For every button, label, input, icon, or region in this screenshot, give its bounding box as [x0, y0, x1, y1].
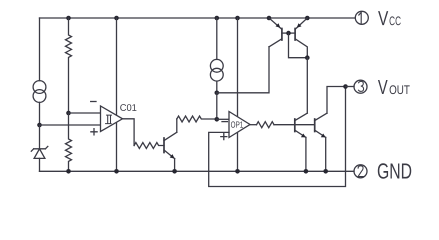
- wire: GND bottom rail: [40, 170, 355, 172]
- svg-text:V: V: [378, 77, 388, 99]
- wire: I2 node to PNP mirror collector: [217, 47, 269, 93]
- junction on Vcc rail for OP1 supply: [235, 16, 240, 21]
- svg-text:OUT: OUT: [389, 83, 410, 97]
- resistor R4: [134, 143, 164, 149]
- label - (C01 inverting): [91, 101, 96, 103]
- current source I2: [210, 59, 223, 72]
- junction on Vcc rail: PNP Q2 emitter: [267, 16, 272, 21]
- svg-text:C01: C01: [120, 103, 137, 114]
- junction Q5 emitter on GND rail: [323, 169, 328, 174]
- wire: divider tap to C01 - input: [69, 112, 101, 114]
- resistor R2: [66, 113, 72, 171]
- resistor R3: [177, 116, 217, 122]
- label + (OP1 non-inverting): [221, 134, 227, 140]
- junction Q1 emitter on GND rail: [172, 169, 177, 174]
- svg-text:CC: CC: [389, 14, 401, 28]
- op-amp OP1: [229, 112, 250, 138]
- comparator C01: [101, 106, 123, 132]
- junction OP1 supply to GND rail: [235, 169, 240, 174]
- junction on Vcc rail: PNP Q3 emitter: [305, 16, 310, 21]
- transistor Q4 (output NPN left): [295, 113, 308, 137]
- transistor Q1 (NPN): [164, 132, 177, 158]
- label + (C01 non-inverting): [91, 129, 97, 135]
- junction Q4 emitter on GND rail: [304, 169, 309, 174]
- wire: OP1 + input feedback from Vout: [209, 87, 346, 187]
- junction on Vcc rail for I2: [215, 16, 220, 21]
- wire: Vcc top rail: [40, 17, 356, 19]
- node: PNP base junction: [286, 31, 291, 36]
- wire: reference node to zener: [39, 125, 41, 149]
- node: reference node junction: [37, 123, 42, 128]
- wire: I1 output to reference node: [39, 102, 41, 125]
- wire: Vcc to I2: [216, 18, 218, 59]
- wire: left rail upper segment: [39, 18, 41, 81]
- wire: OP1 output: [250, 124, 257, 126]
- terminal 2 (GND pin): [354, 165, 367, 178]
- wire: reference node to C01 + input: [40, 124, 101, 126]
- node: Vout junction: [343, 84, 348, 89]
- transistor Q2 (PNP mirror left): [269, 18, 282, 47]
- wire: C01 supply line Vcc to GND: [116, 18, 118, 171]
- node: OP1 inverting input junction: [215, 117, 220, 122]
- resistor R5: [257, 122, 275, 128]
- label - (OP1 inverting): [222, 121, 227, 123]
- wire: Vout node to terminal 3: [346, 86, 355, 88]
- wire: node to OP1 - input: [217, 118, 229, 120]
- wire: PNP common base line: [282, 32, 295, 34]
- wire: R5 to output transistor bases: [274, 124, 315, 126]
- svg-text:GND: GND: [377, 159, 412, 184]
- terminal 1 (Vcc pin): [355, 11, 368, 24]
- terminal 3 (Vout pin): [354, 80, 367, 93]
- node: Q3 collector junction: [305, 55, 310, 60]
- wire: Q5 emitter to GND: [325, 137, 327, 171]
- wire: Q1 collector: [176, 119, 178, 132]
- wire: I2 node down to OP1 - node: [216, 93, 218, 120]
- svg-text:OP1: OP1: [231, 120, 244, 130]
- node: divider tap junction: [66, 111, 71, 116]
- zener diode D1: [31, 146, 48, 171]
- junction on Vcc rail for R1: [66, 16, 71, 21]
- resistor R1: [66, 18, 72, 113]
- junction C01 supply to GND rail: [114, 169, 119, 174]
- transistor Q3 (PNP mirror right, diode-connected): [295, 18, 307, 58]
- svg-text:V: V: [378, 8, 389, 30]
- wire: OP1 supply line Vcc to GND: [237, 18, 239, 171]
- wire: Q5 collector to Vout node: [327, 87, 346, 114]
- wire: base-collector tie of Q3: [289, 33, 308, 58]
- junction R2 to GND rail: [66, 169, 71, 174]
- junction on Vcc rail for C01 supply: [114, 16, 119, 21]
- node: I2 output junction: [215, 91, 220, 96]
- wire: C01 output: [123, 119, 135, 146]
- wire: Q4 emitter to GND: [305, 137, 307, 171]
- wire: Q1 emitter to GND: [174, 159, 176, 172]
- transistor Q5 (output NPN right): [315, 113, 327, 137]
- current source I1: [33, 81, 46, 94]
- wire: Q3 collector down to Q4 collector: [306, 58, 308, 113]
- wire: I2 output: [216, 81, 218, 93]
